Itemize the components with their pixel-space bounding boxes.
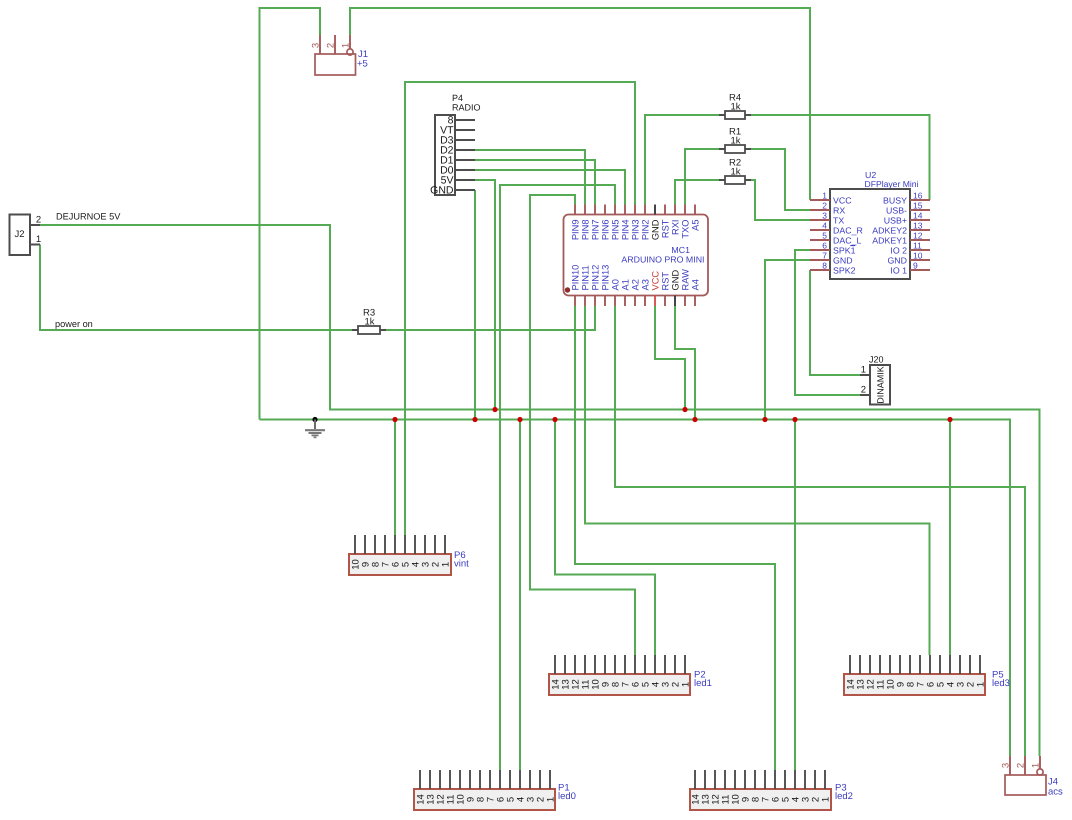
svg-text:led3: led3 [992, 678, 1010, 689]
svg-text:DEJURNOE 5V: DEJURNOE 5V [56, 212, 121, 222]
junction on GND bus at x=475 [472, 417, 477, 422]
svg-text:+5: +5 [357, 59, 368, 70]
wire MC1 PIN2 to R4 left [645, 115, 719, 205]
svg-text:J2: J2 [14, 229, 24, 240]
connector P3 body and pins [690, 789, 831, 810]
connector J20 body and pins [870, 365, 890, 405]
svg-text:5: 5 [822, 231, 827, 241]
connector P2 body and pins [549, 674, 690, 695]
resistor R3 [352, 329, 358, 331]
svg-text:1k: 1k [731, 136, 741, 147]
svg-text:13: 13 [913, 221, 923, 231]
svg-text:A3: A3 [641, 279, 651, 290]
junction on +5 rail at x=495 [492, 407, 497, 412]
svg-text:1: 1 [341, 43, 352, 48]
svg-text:2: 2 [1016, 763, 1027, 768]
svg-text:A0: A0 [611, 279, 621, 290]
svg-text:1: 1 [1031, 763, 1042, 768]
svg-text:A4: A4 [691, 279, 701, 290]
junction on GND bus at x=395 [392, 417, 397, 422]
svg-text:1: 1 [822, 191, 827, 201]
svg-text:DAC_R: DAC_R [833, 226, 863, 236]
connector P5 body and pins [844, 674, 985, 695]
wire U2 SPK1 to J20 pin2 [795, 250, 860, 395]
wire power on right to MC1 PIN12 [386, 306, 595, 330]
svg-text:RADIO: RADIO [452, 103, 481, 113]
svg-text:SPK1: SPK1 [833, 246, 856, 256]
svg-text:7: 7 [822, 251, 827, 261]
svg-text:PIN12: PIN12 [591, 265, 601, 291]
wire J1 pin3 to ground rail [260, 8, 321, 420]
IC U2 DFPlayer body and pins [830, 189, 910, 279]
ground [312, 417, 317, 422]
wire bus to P2 pin4 [555, 420, 655, 656]
svg-text:RST: RST [661, 219, 671, 238]
svg-text:led1: led1 [694, 678, 712, 689]
wire MC1 VCC to +5 rail [655, 306, 685, 410]
svg-text:SPK2: SPK2 [833, 266, 856, 276]
connector P1 body and pins [414, 789, 555, 810]
wire P4 GND to bus [474, 190, 476, 420]
svg-text:VCC: VCC [833, 196, 852, 206]
svg-text:1: 1 [821, 797, 832, 802]
wire R4 right to U2 BUSY [751, 115, 930, 200]
svg-text:PIN10: PIN10 [571, 265, 581, 291]
wire R2 right to U2 TX [751, 180, 810, 220]
svg-text:1: 1 [546, 797, 557, 802]
wire MC1 PIN5 to P1 pin6 [500, 185, 615, 770]
svg-text:A2: A2 [631, 279, 641, 290]
wire MC1 PIN11 to P5 pin6 [585, 306, 930, 655]
svg-text:2: 2 [822, 201, 827, 211]
svg-text:BUSY: BUSY [883, 196, 907, 206]
wire P4 5V to +5 rail [475, 180, 495, 410]
resistor R1 [719, 148, 725, 150]
svg-text:4: 4 [822, 221, 827, 231]
junction on GND bus at x=795 [792, 417, 797, 422]
svg-text:1: 1 [36, 234, 41, 245]
connector P4 body and pins [435, 115, 455, 195]
svg-text:acs: acs [1048, 787, 1063, 798]
svg-text:1k: 1k [365, 317, 375, 328]
svg-text:J20: J20 [869, 355, 884, 365]
wire MC1 PIN10 to P3 pin6 [575, 306, 775, 770]
svg-text:led2: led2 [835, 791, 853, 802]
wire P4 D2 to MC1 PIN8 [475, 150, 585, 205]
svg-text:PIN7: PIN7 [591, 220, 601, 241]
svg-text:PIN13: PIN13 [601, 265, 611, 291]
svg-text:A1: A1 [621, 279, 631, 290]
svg-text:PIN8: PIN8 [581, 220, 591, 241]
svg-text:RX: RX [833, 206, 845, 216]
svg-text:vint: vint [454, 559, 469, 570]
svg-text:IO 2: IO 2 [890, 246, 907, 256]
svg-text:power on: power on [55, 319, 93, 329]
svg-text:PIN3: PIN3 [631, 220, 641, 241]
svg-text:GND: GND [833, 256, 853, 266]
svg-text:A5: A5 [691, 220, 701, 231]
junction on GND bus at x=520 [517, 417, 522, 422]
svg-text:P4: P4 [452, 93, 463, 103]
svg-text:GND: GND [671, 270, 681, 291]
wire MC1 TXO to R1 left [685, 149, 719, 205]
svg-text:VCC: VCC [651, 271, 661, 291]
svg-text:ARDUINO PRO MINI: ARDUINO PRO MINI [621, 255, 704, 265]
svg-text:GND: GND [651, 219, 661, 240]
connector J2 body and pins [10, 215, 31, 256]
svg-text:2: 2 [326, 43, 337, 48]
wire MC1 PIN3 to P6 pin5 [405, 82, 635, 535]
wire MC1 RXI to R2 left [675, 180, 719, 205]
resistor R2 [719, 179, 725, 181]
wire bus to P6 pin6 [394, 420, 396, 536]
junction on GND bus at x=950 [947, 417, 952, 422]
wire MC1 PIN9 to P2 pin6 [530, 195, 635, 655]
wire power on left [40, 245, 352, 331]
junction on GND bus at x=555 [552, 417, 557, 422]
svg-text:1: 1 [441, 562, 452, 567]
svg-text:PIN5: PIN5 [611, 220, 621, 241]
svg-text:RXI: RXI [671, 220, 681, 236]
wire MC1 A0 to J4 pin2 [615, 306, 1025, 756]
wire MC1 GND to bus [675, 306, 695, 420]
svg-text:PIN6: PIN6 [601, 220, 611, 241]
svg-text:PIN2: PIN2 [641, 220, 651, 241]
svg-text:1k: 1k [731, 102, 741, 113]
connector P6 body and pins [349, 554, 451, 575]
wire R1 right to U2 RX [751, 149, 810, 210]
svg-text:6: 6 [822, 241, 827, 251]
IC MC1 ARDUINO PRO MINI body and pins [564, 215, 709, 296]
svg-text:GND: GND [430, 185, 454, 197]
svg-text:RAW: RAW [681, 269, 691, 291]
svg-text:12: 12 [913, 231, 923, 241]
junction on GND bus at x=765 [762, 417, 767, 422]
svg-text:ADKEY2: ADKEY2 [872, 226, 907, 236]
svg-text:DFPlayer Mini: DFPlayer Mini [865, 179, 919, 189]
svg-text:1k: 1k [731, 167, 741, 178]
svg-text:15: 15 [913, 201, 923, 211]
svg-text:11: 11 [913, 241, 922, 251]
svg-text:3: 3 [1001, 763, 1012, 768]
wire U2 GND to bus [765, 260, 810, 420]
svg-text:TXO: TXO [681, 220, 691, 239]
wire GND bus [260, 420, 1011, 757]
svg-text:10: 10 [913, 251, 923, 261]
svg-text:1: 1 [976, 682, 987, 687]
svg-text:3: 3 [822, 211, 827, 221]
svg-text:1: 1 [681, 682, 692, 687]
svg-text:RST: RST [661, 272, 671, 291]
resistor R4 [719, 114, 725, 116]
svg-text:USB+: USB+ [884, 216, 907, 226]
svg-text:MC1: MC1 [671, 245, 690, 255]
svg-text:PIN4: PIN4 [621, 220, 631, 241]
wire bus to P1 pin4 [519, 420, 521, 771]
junction on GND bus at x=695 [692, 417, 697, 422]
svg-text:led0: led0 [558, 791, 576, 802]
svg-text:9: 9 [913, 261, 918, 271]
svg-text:GND: GND [887, 256, 907, 266]
svg-text:16: 16 [913, 191, 923, 201]
wire P4 D1 to MC1 PIN7 [475, 160, 595, 205]
svg-text:2: 2 [861, 385, 866, 396]
svg-text:DAC_L: DAC_L [833, 236, 861, 246]
svg-text:1: 1 [861, 365, 866, 376]
svg-text:14: 14 [913, 211, 923, 221]
wire P4 D0 to MC1 PIN4 [475, 170, 625, 205]
svg-text:PIN11: PIN11 [581, 265, 591, 290]
wire +5 rail from J2 pin2 to J4 pin1 [40, 225, 1040, 756]
wire bus to P5 pin4 [949, 420, 951, 656]
svg-text:ADKEY1: ADKEY1 [872, 236, 907, 246]
svg-text:TX: TX [833, 216, 844, 226]
connector J1 body and pins [315, 54, 356, 75]
svg-text:PIN9: PIN9 [571, 220, 581, 241]
svg-text:8: 8 [822, 261, 827, 271]
svg-text:DINAMIK: DINAMIK [876, 366, 886, 404]
wire U2 SPK2 to J20 pin1 [810, 270, 860, 375]
connector J4 body and pins [1005, 775, 1046, 795]
svg-text:IO 1: IO 1 [890, 266, 907, 276]
wire J1 pin1 to U2 VCC top rail [350, 8, 810, 200]
svg-text:2: 2 [36, 215, 41, 226]
svg-text:3: 3 [311, 43, 322, 48]
svg-text:USB-: USB- [886, 206, 907, 216]
junction on +5 rail at x=685 [682, 407, 687, 412]
wire bus to P3 pin4 [794, 420, 796, 771]
